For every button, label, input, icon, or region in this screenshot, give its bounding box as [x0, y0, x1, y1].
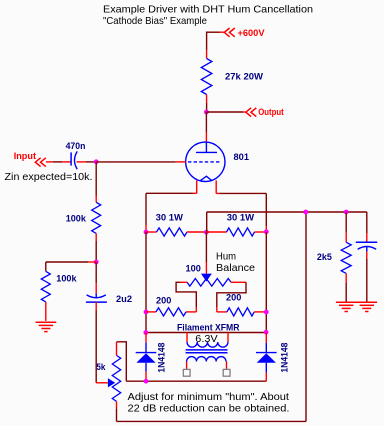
- note line 1: [128, 391, 290, 403]
- wire grid node down: [95, 162, 97, 203]
- node cathode right: [264, 229, 269, 234]
- svg-text:100k: 100k: [66, 214, 87, 225]
- svg-text:Filament XFMR: Filament XFMR: [177, 322, 240, 333]
- label 801: [234, 152, 250, 163]
- wire 27k to output node: [206, 95, 208, 113]
- capacitor C1 470n: [71, 151, 86, 169]
- potentiometer R4 5k: [112, 355, 120, 401]
- tube filament: [200, 176, 212, 181]
- wire D1 bottom: [145, 363, 147, 381]
- svg-text:Input: Input: [14, 151, 37, 162]
- wire diode top rail: [146, 332, 266, 334]
- svg-text:+600V: +600V: [238, 28, 266, 39]
- resistor R3 100k: [41, 271, 50, 302]
- resistor R7 2k5: [341, 242, 351, 273]
- capacitor C2 2u2: [86, 293, 107, 302]
- wire 100k to node2: [95, 233, 97, 262]
- label Filament XFMR: [177, 322, 240, 333]
- node rail return: [303, 210, 308, 215]
- svg-text:30 1W: 30 1W: [156, 212, 183, 223]
- resistor R5 30 1W: [146, 228, 206, 236]
- wire node2 down to C2: [95, 262, 97, 293]
- transformer T1 secondary: [187, 357, 226, 362]
- svg-text:200: 200: [156, 296, 171, 307]
- wire 2k5 top: [345, 212, 347, 242]
- transformer core: [186, 350, 228, 353]
- wire C2 down: [95, 302, 97, 383]
- node rail 2k5: [344, 210, 349, 215]
- svg-text:801: 801: [234, 152, 250, 163]
- wire input to C1: [46, 161, 71, 163]
- tube plate: [196, 142, 217, 152]
- node 200 right: [264, 310, 269, 315]
- wire grid node to tube: [96, 161, 186, 163]
- wire wiper: [96, 382, 108, 384]
- label 100: [186, 263, 201, 274]
- wire 5k bottom: [116, 401, 118, 421]
- wire wiper feed: [205, 232, 207, 274]
- node grid junction: [94, 159, 99, 164]
- wire hum left jog: [176, 282, 196, 312]
- resistor R1 27k 20W: [201, 59, 212, 95]
- wire C3 to ground: [366, 252, 368, 302]
- wire right column: [265, 232, 267, 332]
- terminal +600V: [224, 28, 265, 39]
- wire 2k5 to ground: [345, 273, 347, 302]
- svg-text:22 dB reduction can be obtaine: 22 dB reduction can be obtained.: [128, 403, 290, 415]
- node diode right top: [264, 330, 269, 335]
- wire return right riser: [305, 212, 307, 421]
- label 200 (right): [226, 292, 241, 303]
- svg-text:1N4148: 1N4148: [280, 343, 291, 373]
- node 200 left: [144, 310, 149, 315]
- wire R3 to ground: [45, 302, 47, 321]
- svg-text:Balance: Balance: [216, 262, 255, 274]
- label Balance: [216, 262, 255, 274]
- tube grid (dashed): [188, 161, 220, 163]
- svg-text:2k5: 2k5: [317, 252, 333, 263]
- wire D2 bottom: [265, 363, 267, 381]
- resistor R10 200: [227, 308, 266, 316]
- transformer T1 primary: [187, 342, 228, 347]
- wire return bottom rail: [117, 420, 307, 422]
- wire filament lead right: [216, 180, 266, 232]
- label 5k: [96, 362, 106, 373]
- resistor R2 100k: [92, 202, 101, 233]
- label 1N4148 (left): [156, 343, 167, 373]
- wire output: [206, 111, 245, 113]
- label 27k 20W: [225, 72, 263, 83]
- resistor R9 200: [146, 308, 186, 316]
- node D1 anode: [144, 379, 149, 384]
- title text line 2: [103, 15, 207, 27]
- wire top rail: [207, 211, 367, 213]
- note line 2: [128, 403, 290, 415]
- ground (R3): [36, 322, 57, 331]
- label Zin: [5, 171, 93, 183]
- wire 5k top jog: [117, 342, 127, 381]
- label 470n: [66, 141, 86, 152]
- label 6.3V: [195, 333, 217, 345]
- wire left column: [145, 232, 147, 333]
- svg-text:30 1W: 30 1W: [227, 212, 254, 223]
- wire D1 top: [145, 333, 147, 353]
- title text line 1: [103, 4, 313, 16]
- wire B+ horizontal: [207, 31, 225, 33]
- label Hum: [216, 250, 236, 262]
- label 2u2: [116, 294, 132, 305]
- svg-text:100k: 100k: [56, 274, 77, 285]
- wire xfmr stub right: [227, 333, 229, 343]
- wire node2 left: [46, 262, 96, 271]
- wire xfmr stub left: [186, 333, 188, 343]
- label 1N4148 (right): [280, 343, 291, 373]
- svg-text:470n: 470n: [66, 141, 86, 152]
- wire xfmr bottom lead right: [226, 362, 228, 370]
- potentiometer R8 100 hum balance: [187, 279, 231, 287]
- diode D2 1N4148: [256, 353, 277, 363]
- svg-text:Hum: Hum: [216, 250, 236, 262]
- svg-text:2u2: 2u2: [116, 294, 132, 305]
- wire filament return bottom: [126, 380, 266, 382]
- label Input: [14, 151, 37, 162]
- svg-text:27k 20W: 27k 20W: [225, 72, 263, 83]
- svg-text:Output: Output: [258, 107, 284, 118]
- svg-text:5k: 5k: [96, 362, 106, 373]
- label 100k (R3): [56, 274, 77, 285]
- terminal square left: [183, 369, 190, 376]
- wire B+ vertical: [206, 32, 208, 59]
- terminal square right: [223, 369, 230, 376]
- svg-text:100: 100: [186, 263, 201, 274]
- wire filament lead left: [146, 180, 197, 232]
- wire cap C3 top: [366, 212, 368, 242]
- svg-text:Zin expected=10k.: Zin expected=10k.: [5, 171, 93, 183]
- label 30 1W (right): [227, 212, 254, 223]
- wire xfmr bottom lead left: [186, 362, 188, 370]
- node cathode left: [144, 230, 149, 235]
- svg-text:"Cathode Bias" Example: "Cathode Bias" Example: [103, 15, 207, 27]
- capacitor C3: [356, 242, 377, 251]
- terminal Output: [246, 107, 285, 118]
- resistor R6 30 1W: [206, 228, 266, 236]
- svg-text:Example Driver with DHT Hum Ca: Example Driver with DHT Hum Cancellation: [103, 4, 313, 16]
- label 200 (left): [156, 296, 171, 307]
- pot wiper arrow (5k): [108, 378, 115, 387]
- node output junction: [204, 110, 209, 115]
- pot wiper arrow (hum): [201, 274, 212, 282]
- node cathode centre: [204, 230, 209, 235]
- ground (C3): [357, 302, 378, 311]
- svg-text:200: 200: [226, 292, 241, 303]
- svg-text:Adjust for minimum "hum". Abou: Adjust for minimum "hum". About: [128, 391, 290, 403]
- wire centre rail riser: [206, 212, 208, 232]
- label 2k5: [317, 252, 333, 263]
- terminal Input: [35, 158, 46, 167]
- label 100k: [66, 214, 87, 225]
- svg-text:6.3V: 6.3V: [195, 333, 217, 345]
- tube V1 801 envelope: [186, 142, 225, 181]
- svg-text:1N4148: 1N4148: [156, 343, 167, 373]
- node diode left top: [143, 330, 148, 335]
- wire D2 top: [265, 332, 267, 352]
- ground (2k5): [336, 302, 357, 311]
- diode D1 1N4148: [136, 353, 157, 363]
- label 30 1W (left): [156, 212, 183, 223]
- wire C1 to grid node: [86, 161, 96, 163]
- node bias junction: [94, 260, 99, 265]
- wire plate lead: [205, 112, 207, 142]
- wire hum right jog: [217, 282, 246, 312]
